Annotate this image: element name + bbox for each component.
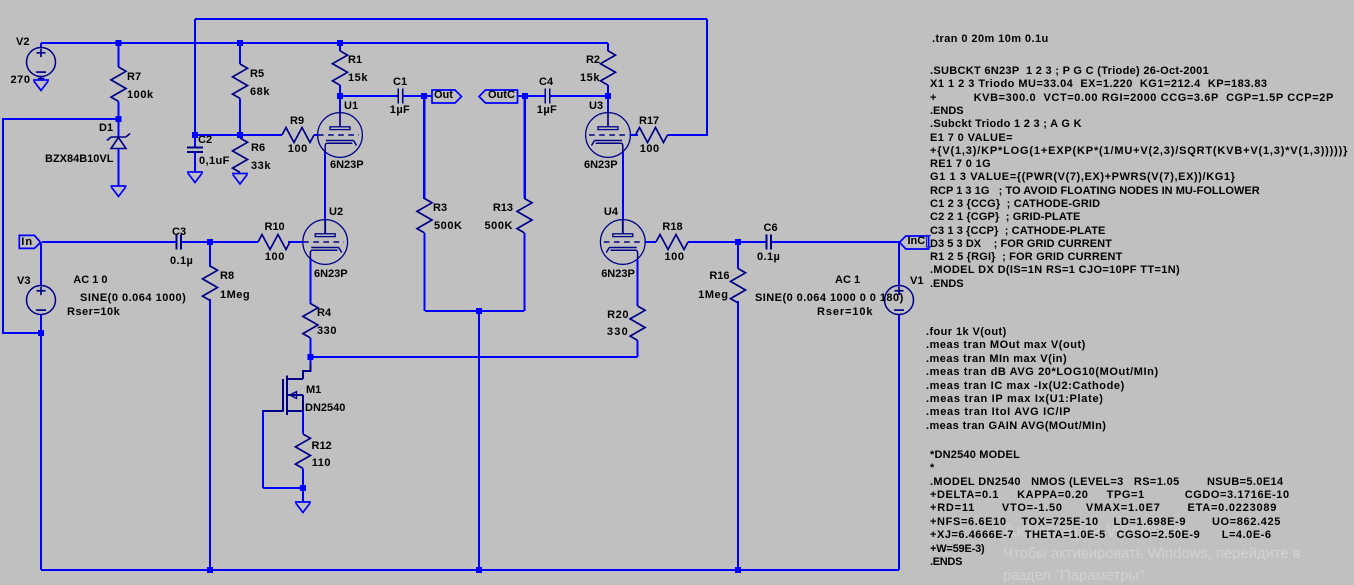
wire U2 grid stub [288,241,303,243]
wire U1 cathode to U2 plate [324,152,326,220]
label R5 [250,69,264,80]
wire C4 to R2 junction [550,95,608,97]
wire bypass rail right drop x=707 [706,19,708,136]
node flag OutC [479,90,518,103]
wire OutC stub [517,95,545,97]
resistor R18 [656,235,688,250]
label R9 [290,116,304,127]
value 6N23P U4 [601,269,635,280]
value Rser V1 [817,307,873,318]
value 100k [127,90,154,101]
label C1 [393,77,407,88]
value BZX84B10VL [45,154,113,165]
resistor R10 [210,235,303,250]
spice directive 6N23P subckt [930,66,1209,77]
junction R8 bottom rail [207,567,213,573]
watermark line 1 [1003,526,1187,537]
value 1µF C4 [537,105,557,116]
triode U4 [600,220,645,265]
label D1 [99,123,113,134]
label C4 [539,77,553,88]
capacitor C2 [187,135,203,172]
value 1Meg R16 [698,290,728,301]
label V3 [17,276,30,287]
junction U1 plate [337,93,343,99]
value 0,1uF [199,156,230,167]
junction V3 bottom [38,330,44,336]
voltage source V2 [27,43,56,80]
resistor R16 [731,242,746,303]
spice comment DN2540 model [930,450,1020,461]
label R13 [493,203,513,214]
net name In [21,237,33,248]
wire U3 grid stub [630,134,638,136]
wire In row y=242 left [42,241,177,243]
wire C6 to InC flag [771,241,900,243]
resistor R1 [333,43,348,96]
ground at V2 [33,79,49,81]
junction C3-R8 [207,239,213,245]
spice directive .tran [932,34,1049,45]
wire top supply rail y=43 [41,42,608,44]
capacitor C4 [545,89,550,104]
value 100 R17 [640,144,660,155]
wire mid node drop x=479 [478,311,480,570]
value 1µF C1 [390,105,410,116]
watermark line 3 [1003,571,1148,582]
wire D1 top to left rail y=119 [3,118,119,120]
value 6N23P U3 [584,160,618,171]
resistor R17 [630,128,669,143]
value 0.1µ C3 [170,256,193,267]
wire inner bypass rail y=19 [195,18,707,20]
wire U4 grid stub [645,241,656,243]
net name Out [434,90,453,101]
node flag InC [900,236,929,249]
ground at C2 [187,171,203,173]
resistor R4 [303,304,318,358]
wire OutC junction drop x=525 [524,96,526,199]
junction R16 bottom rail [735,567,741,573]
junction OutC node [522,93,528,99]
label R10 [265,222,285,233]
label V1 [910,276,923,287]
label R17 [639,116,659,127]
ground at R12 [295,501,311,503]
wire R17 to right rail [668,134,707,136]
label R16 [709,271,729,282]
value 6N23P U2 [314,269,348,280]
wire R9 to U1 grid stub [314,134,318,136]
wire V3 bottom lead [40,314,42,570]
capacitor C3 [42,235,181,250]
label M1 [306,385,321,396]
label V2 [16,37,29,48]
value 15k R1 [348,73,368,84]
node flag Out [432,90,462,103]
label R20 [607,310,629,321]
value AC 1 [835,275,860,286]
net name InC [908,236,926,247]
wire R16 drop x=738 [737,301,739,570]
value SINE V3 [80,293,186,304]
junction R1 top rail [337,40,343,46]
wire In flag to V3 drop x=41 [40,243,42,286]
spice directive .four/.meas [926,327,1007,338]
voltage source V1 [885,286,914,315]
label U1 [344,101,358,112]
label R18 [662,222,682,233]
resistor R2 [601,43,616,96]
wire left edge vertical x=3 [2,118,4,334]
text cursor bracket [927,236,932,248]
value 68k [250,87,270,98]
label C6 [764,223,778,234]
wire U1 plate junction row y=96 [340,95,398,97]
wire R8 drop x=210 [209,242,211,267]
wire cathode return row y=357 [310,356,637,358]
watermark line 2 [1003,549,1301,560]
value 100 R10 [265,252,285,263]
wire bottom ground rail y=570 [41,569,899,571]
value 110 [312,458,331,469]
junction R5 top rail [237,40,243,46]
resistor R6 [233,135,248,174]
label R6 [251,143,265,154]
wire V1 bottom lead [898,314,900,570]
triode U3 [586,96,631,157]
value 33k [251,161,271,172]
label U2 [329,207,343,218]
junction R4-M1 drain [307,354,313,360]
value 500K R13 [485,221,514,232]
wire U4 cathode to R20 [637,259,639,306]
wire M1 gate loop bottom y=488 [263,487,303,489]
wire R3-R13 bottom bridge y=311 [425,310,524,312]
wire U2 cathode to R4 [309,259,311,304]
resistor R9 [240,128,318,143]
junction R18-C6-R16 [735,239,741,245]
nmos transistor M1 [263,357,310,434]
net name OutC [488,90,515,101]
resistor R13 [517,96,532,311]
wire Out junction drop x=424 [423,96,425,199]
label R1 [348,55,362,66]
label C3 [172,227,186,238]
value 100 R9 [288,144,308,155]
junction U3 plate [605,93,611,99]
triode U2 [303,220,348,265]
ground at D1 [111,185,127,187]
ground at R6 [232,173,248,175]
value 1Meg R8 [220,290,250,301]
wire M1 gate loop vertical x=263 [262,410,264,488]
junction R12 bottom [300,485,306,491]
value 270 [11,75,31,86]
wire U3 cathode to U4 plate [622,152,624,220]
label R3 [433,203,447,214]
value 330 R4 [317,326,337,337]
value 0.1µ C6 [757,252,780,263]
value 15k R2 [580,73,600,84]
label R7 [127,72,141,83]
junction D1 top [116,116,122,122]
capacitor C6 [688,235,771,250]
label R2 [586,55,600,66]
junction mid bottom rail [476,567,482,573]
voltage source V3 [27,286,56,317]
wire R18 to C6 row y=242 [688,241,766,243]
junction Out node [421,93,427,99]
value 6N23P U1 [330,160,364,171]
wire C3 to R10 [181,241,256,243]
label U3 [589,101,603,112]
triode U1 [318,96,363,157]
value 330 R20 [607,327,629,338]
value AC 1 0 [73,275,107,286]
value 500K R3 [434,221,463,232]
resistor R3 [417,96,432,311]
wire R12 to ground [302,488,304,502]
wire InC drop x=899 [898,242,900,286]
resistor R7 [111,43,126,119]
wire left to V3 bottom y=333 [3,332,41,334]
value 100 R18 [665,252,685,263]
resistor R12 [295,434,310,488]
label R12 [312,441,332,452]
label R4 [317,308,331,319]
junction C2 [192,132,198,138]
value Rser V3 [67,307,120,318]
wire R20 bottom corner x=638 [637,340,639,357]
value SINE V1 [755,293,904,304]
node flag In [19,235,40,248]
resistor R8 [203,242,218,300]
capacitor C1 [398,89,403,104]
resistor R5 [233,43,248,135]
junction R7 top rail [116,40,122,46]
zener diode D1 [107,119,130,186]
value DN2540 [305,403,345,414]
wire C1 to Out flag [403,95,432,97]
resistor R20 [630,306,645,340]
junction R3-R13 mid [476,308,482,314]
wire bypass rail left drop x=195 [194,19,196,134]
wire C2 rail y=135 [195,134,282,136]
label C2 [198,135,212,146]
label R8 [220,271,234,282]
junction R6 top [237,132,243,138]
label U4 [604,207,618,218]
